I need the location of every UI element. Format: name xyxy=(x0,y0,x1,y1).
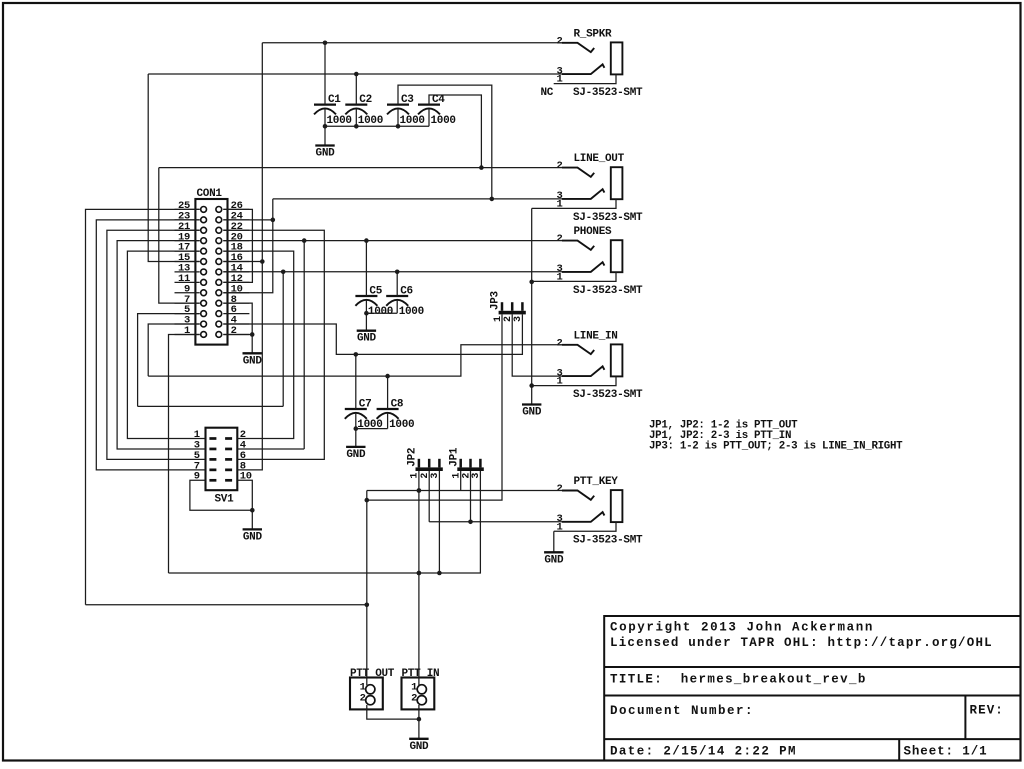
svg-text:1000: 1000 xyxy=(399,306,424,318)
wire PHONES pin3 net (CON1 pin14) xyxy=(223,270,562,275)
wire C6 bottom lead xyxy=(396,300,398,313)
svg-text:SJ-3523-SMT: SJ-3523-SMT xyxy=(573,535,643,547)
svg-text:GND: GND xyxy=(544,554,564,566)
connector CON1 body xyxy=(178,188,243,344)
wire CON1 pin26 to pin12 xyxy=(223,209,252,282)
wire PTT bottom to ground xyxy=(418,719,420,739)
svg-text:PTT_KEY: PTT_KEY xyxy=(574,476,619,488)
audio jack PTT_KEY (SJ-3523-SMT) xyxy=(554,476,643,547)
wire CON1 pin15 up to R_SPKR pin3 wire xyxy=(148,74,200,262)
svg-text:C4: C4 xyxy=(432,94,445,106)
wire LINE_OUT/PHONES/LINE_IN pin1 ground chain xyxy=(529,208,534,404)
ground below PTT_IN xyxy=(409,739,429,753)
svg-text:1: 1 xyxy=(556,376,562,388)
wire SV1 pin9 ground bracket xyxy=(190,480,255,512)
svg-text:SJ-3523-SMT: SJ-3523-SMT xyxy=(573,389,643,401)
wire C2 bottom lead xyxy=(355,109,357,127)
svg-text:2: 2 xyxy=(556,233,562,245)
wire CON1 pin3 down to LINE_IN net xyxy=(148,324,200,376)
wire PTT_KEY pin1 to ground xyxy=(553,531,555,552)
wire PHONES pin2 tap to SV1 pin4 xyxy=(303,241,305,449)
svg-text:GND: GND xyxy=(409,741,429,753)
wire C5 rail to ground xyxy=(365,313,367,331)
svg-text:C3: C3 xyxy=(401,94,414,106)
note text about jumpers xyxy=(649,420,903,453)
capacitor C5 1000 xyxy=(355,286,393,319)
wire CON1 pin1 down to PTT_IN net xyxy=(169,334,200,573)
wire C6 top lead xyxy=(396,272,398,296)
wire CON1 pin23 to SV1 pin7 xyxy=(96,220,205,470)
svg-text:GND: GND xyxy=(346,449,366,461)
svg-text:GND: GND xyxy=(316,148,336,160)
ground below SV1 xyxy=(243,529,263,543)
wire R_SPKR pin2 net xyxy=(262,41,562,46)
wire CON1 pin24 stub xyxy=(223,218,275,223)
wire CON1 pin16 stub xyxy=(223,259,264,264)
svg-text:NC: NC xyxy=(541,87,554,99)
svg-text:2: 2 xyxy=(411,692,417,704)
svg-text:REV:: REV: xyxy=(970,704,1004,718)
svg-text:SJ-3523-SMT: SJ-3523-SMT xyxy=(573,87,643,99)
svg-text:SV1: SV1 xyxy=(215,494,235,506)
svg-text:LINE_OUT: LINE_OUT xyxy=(574,153,625,165)
wire PTT_KEY pin2 net xyxy=(367,488,562,493)
capacitor C8 1000 xyxy=(377,399,415,432)
wire PTT_KEY pin3 net xyxy=(429,520,562,525)
svg-text:Copyright 2013 John Ackermann: Copyright 2013 John Ackermann xyxy=(610,621,874,635)
capacitor C2 1000 xyxy=(345,94,383,127)
svg-text:2: 2 xyxy=(556,160,562,172)
wire CON1 pin8 down to ground xyxy=(223,303,254,353)
svg-text:2: 2 xyxy=(231,325,237,337)
ground for C5-C6 xyxy=(357,331,377,345)
svg-text:JP3: 1-2 is PTT_OUT; 2-3 is LI: JP3: 1-2 is PTT_OUT; 2-3 is LINE_IN_RIGH… xyxy=(649,440,903,452)
svg-text:C8: C8 xyxy=(391,399,404,411)
svg-text:1: 1 xyxy=(556,198,562,210)
wire C1 bottom lead xyxy=(324,109,326,127)
wire CON1 pin10 up to LINE_OUT pin3 wire xyxy=(223,199,272,293)
svg-text:Document Number:: Document Number: xyxy=(610,704,754,718)
wire C7 bottom lead xyxy=(355,413,357,429)
wire PTT_OUT feed column xyxy=(365,491,370,686)
svg-text:2: 2 xyxy=(556,337,562,349)
svg-text:2: 2 xyxy=(360,692,366,704)
wire PTT_OUT net (CON1 pin25) xyxy=(86,604,367,606)
wire SV1 pin10 to ground xyxy=(237,480,252,529)
wire CON1 pin17 to SV1 pin1 xyxy=(127,251,205,438)
svg-text:JP1: JP1 xyxy=(448,447,460,467)
wire CON1 pin4 to JP3 pin3 xyxy=(223,315,522,357)
svg-text:1000: 1000 xyxy=(431,115,456,127)
svg-text:1000: 1000 xyxy=(400,115,425,127)
title block frame xyxy=(604,616,1020,761)
wire LINE_OUT pin3 net xyxy=(273,198,562,200)
wire JP3 pin1 down-left link xyxy=(365,315,503,503)
connector PTT_IN (2-pin) xyxy=(402,668,440,710)
wire R_SPKR pin2 column down to SV1 pin8 xyxy=(237,43,262,470)
wire JP1 pin1 down xyxy=(460,471,462,491)
svg-text:TITLE: hermes_breakout_rev_b: TITLE: hermes_breakout_rev_b xyxy=(610,673,867,687)
wire JP3 pin2 to LINE_IN pin3 xyxy=(512,315,562,377)
svg-text:SJ-3523-SMT: SJ-3523-SMT xyxy=(573,285,643,297)
connector SV1 body xyxy=(194,428,252,506)
title block text xyxy=(610,621,1004,759)
svg-text:C2: C2 xyxy=(359,94,372,106)
wire JP2 pin2 down xyxy=(428,471,430,522)
ground for C1-C4 xyxy=(315,146,335,160)
svg-text:C5: C5 xyxy=(369,286,382,298)
svg-text:C6: C6 xyxy=(400,286,413,298)
wire CON1 pin21 to SV1 pin5 xyxy=(107,230,206,459)
wire C3 top lead to LINE_OUT pin3 xyxy=(398,85,494,201)
wire R_SPKR pin3 net xyxy=(148,72,562,77)
wire C5 top lead xyxy=(365,241,367,296)
svg-text:1000: 1000 xyxy=(389,419,414,431)
svg-text:PTT_OUT: PTT_OUT xyxy=(350,668,395,680)
svg-text:CON1: CON1 xyxy=(197,188,223,200)
svg-text:C7: C7 xyxy=(359,399,372,411)
wire CON1 pin7 up to LINE_OUT pin2 wire xyxy=(159,168,200,304)
svg-text:R_SPKR: R_SPKR xyxy=(574,28,613,40)
wire C8 bottom lead xyxy=(387,413,389,429)
wire CON1 pin2 to ground junction xyxy=(223,333,252,335)
wire C4 top lead to LINE_OUT pin2 xyxy=(429,95,484,170)
svg-text:Date: 2/15/14 2:22 PM: Date: 2/15/14 2:22 PM xyxy=(610,745,797,759)
wire C5 bottom lead xyxy=(365,300,367,313)
capacitor C1 1000 xyxy=(314,94,352,127)
audio jack LINE_IN (SJ-3523-SMT) xyxy=(532,330,643,401)
ground below CON1 xyxy=(243,353,263,367)
svg-text:1: 1 xyxy=(556,271,562,283)
wire C2 top lead xyxy=(355,74,357,105)
svg-text:GND: GND xyxy=(243,531,263,543)
wire C7 rail to ground xyxy=(355,429,357,447)
CON1 pin leads xyxy=(175,209,250,334)
wire C4 bottom lead xyxy=(428,109,430,127)
svg-text:GND: GND xyxy=(522,407,542,419)
svg-text:LINE_IN: LINE_IN xyxy=(574,330,618,342)
jumper JP2 (3-pin) xyxy=(407,448,443,479)
svg-text:2: 2 xyxy=(556,483,562,495)
ground for jack sleeves xyxy=(522,405,542,419)
wire PHONES pin3 tap down xyxy=(282,272,284,407)
svg-text:1000: 1000 xyxy=(368,306,393,318)
svg-text:1000: 1000 xyxy=(358,115,383,127)
svg-text:1: 1 xyxy=(184,325,190,337)
svg-text:JP3: JP3 xyxy=(490,290,502,310)
ground for C7-C8 xyxy=(346,447,366,461)
svg-text:2: 2 xyxy=(556,35,562,47)
wire CON1 pin5 down to link xyxy=(138,314,200,407)
svg-text:Licensed under TAPR OHL: http:: Licensed under TAPR OHL: http://tapr.org… xyxy=(610,636,993,650)
connector PTT_OUT (2-pin) xyxy=(350,668,395,710)
wire CON1 pin25 loop to PTT_OUT net xyxy=(86,209,200,604)
svg-text:1: 1 xyxy=(556,74,562,86)
wire C5-C6 ground rail xyxy=(364,311,397,316)
ground for PTT_KEY xyxy=(544,552,564,566)
wire C1-C4 ground rail xyxy=(323,124,429,129)
svg-text:PHONES: PHONES xyxy=(574,226,613,238)
wire PTT_IN feed column (JP2 pin1) xyxy=(417,471,422,685)
svg-text:PTT_IN: PTT_IN xyxy=(402,668,440,680)
svg-text:C1: C1 xyxy=(328,94,341,106)
wire C3 bottom lead xyxy=(397,109,399,127)
wire CON1 pin19 to SV1 pin3 xyxy=(117,241,205,449)
svg-text:GND: GND xyxy=(357,333,377,345)
svg-text:JP2: JP2 xyxy=(407,448,419,467)
jumper JP3 (3-pin) xyxy=(490,290,526,322)
wire C8 top lead xyxy=(387,376,389,409)
capacitor C6 1000 xyxy=(386,286,424,319)
wire link CON1 pin5 to PHONES pin3 tap xyxy=(138,405,284,407)
wire PTT connectors bottom link xyxy=(367,705,421,721)
capacitor C4 1000 xyxy=(418,94,456,127)
svg-text:1: 1 xyxy=(556,521,562,533)
svg-text:GND: GND xyxy=(243,355,263,367)
wire JP2 pin3 down xyxy=(438,471,440,573)
audio jack LINE_OUT (SJ-3523-SMT) xyxy=(532,153,643,224)
capacitor C3 1000 xyxy=(387,94,425,127)
jumper JP1 (3-pin) xyxy=(448,447,484,479)
wire CON1 pin18 to SV1 pin2 xyxy=(223,251,293,438)
svg-text:Sheet: 1/1: Sheet: 1/1 xyxy=(904,745,988,759)
wire C1 rail to ground xyxy=(324,126,326,145)
wire C7 top lead xyxy=(355,354,357,409)
audio jack R_SPKR (SJ-3523-SMT) xyxy=(541,28,644,99)
wire LINE_IN pin2 net with jog xyxy=(148,345,562,379)
wire C1 top lead xyxy=(324,43,326,105)
audio jack PHONES (SJ-3523-SMT) xyxy=(532,226,643,297)
svg-text:1000: 1000 xyxy=(357,419,382,431)
svg-text:SJ-3523-SMT: SJ-3523-SMT xyxy=(573,212,643,224)
wire C7-C8 ground rail xyxy=(354,426,388,431)
wire PTT_IN net (JP1 pin3 to CON1 pin1) xyxy=(169,471,481,575)
wire LINE_OUT pin2 net xyxy=(159,167,562,169)
wire PHONES pin2 net (CON1 pin20) xyxy=(223,238,562,243)
svg-text:1000: 1000 xyxy=(327,115,352,127)
wire CON1 pin22 to SV1 pin6 xyxy=(223,230,324,459)
capacitor C7 1000 xyxy=(345,399,383,432)
wire JP1 pin2 down xyxy=(470,471,472,522)
